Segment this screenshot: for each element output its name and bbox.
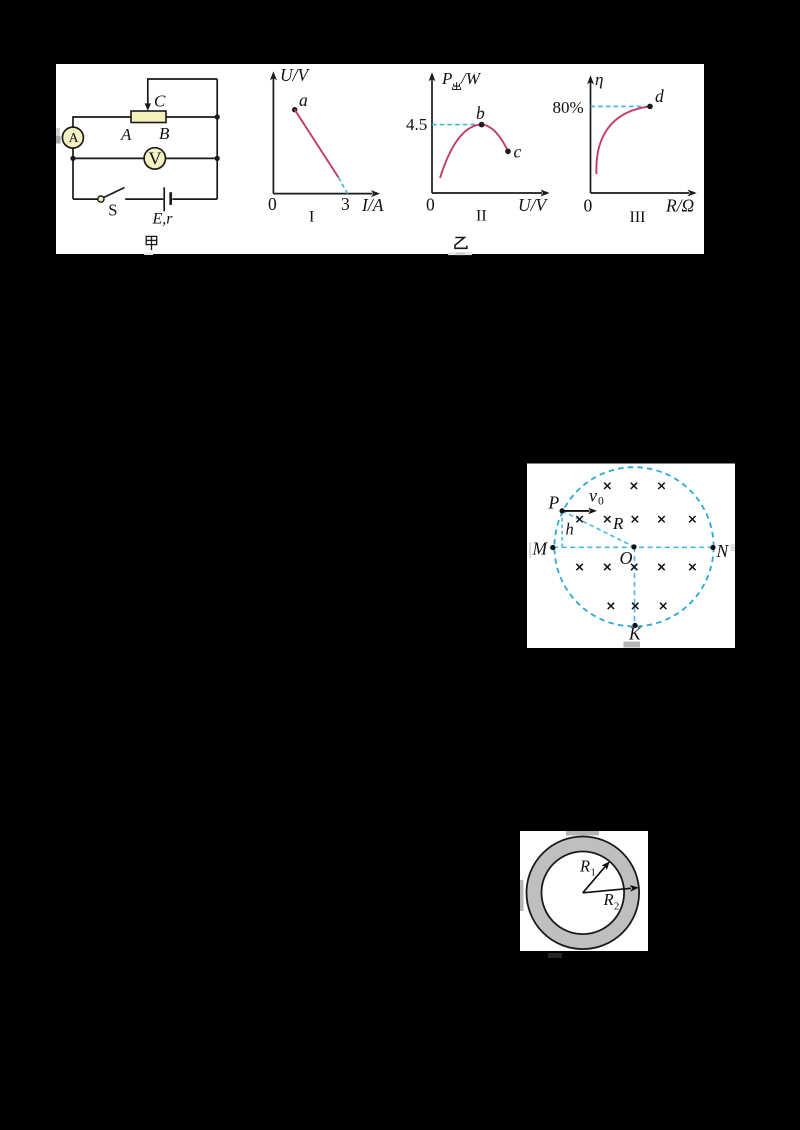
- graph II point b: [479, 122, 485, 128]
- dashed diameter MN: [553, 546, 713, 548]
- svg-text:II: II: [476, 208, 487, 225]
- svg-text:a: a: [299, 90, 308, 110]
- point K: [632, 623, 637, 628]
- gray smudge top edge: [566, 831, 599, 836]
- v0 velocity arrow: [562, 510, 589, 512]
- gray smudge left edge: [520, 880, 524, 911]
- svg-text:2: 2: [614, 902, 619, 913]
- svg-text:P: P: [441, 69, 452, 88]
- wire voltmeter right: [166, 157, 217, 159]
- graph III dashed level: [591, 105, 651, 107]
- svg-text:1: 1: [591, 868, 596, 879]
- svg-text:d: d: [655, 86, 664, 106]
- annulus outer circle: [527, 837, 640, 950]
- graph II x-axis: [432, 192, 542, 194]
- dashed radius OK: [634, 547, 636, 625]
- svg-text:U/V: U/V: [280, 65, 311, 85]
- svg-text:4.5: 4.5: [406, 115, 427, 134]
- figure panel 1 (circuit + graphs): [56, 64, 704, 254]
- annulus inner circle: [542, 852, 625, 935]
- svg-text:III: III: [630, 209, 646, 226]
- svg-text:v: v: [589, 486, 597, 506]
- wire switch-to-battery: [125, 198, 163, 200]
- svg-text:η: η: [595, 70, 603, 89]
- svg-text:0: 0: [268, 194, 277, 214]
- svg-text:0: 0: [426, 195, 435, 215]
- svg-text:A: A: [120, 125, 132, 144]
- svg-text:I: I: [309, 209, 314, 226]
- svg-text:N: N: [716, 541, 730, 561]
- svg-text:M: M: [532, 539, 549, 559]
- svg-text:A: A: [69, 130, 79, 145]
- figure panel 3 (annulus): [520, 831, 648, 951]
- graph II y-axis: [431, 79, 433, 193]
- svg-text:V: V: [149, 149, 162, 169]
- gray tick right of N: [731, 544, 736, 551]
- svg-text:C: C: [154, 92, 166, 111]
- svg-text:0: 0: [598, 496, 604, 508]
- radius arrow R1: [583, 866, 606, 893]
- graph I x-axis: [273, 193, 372, 195]
- svg-text:O: O: [620, 548, 633, 568]
- faint mark below panel 3: [548, 953, 562, 958]
- gray tick left edge: [529, 543, 531, 559]
- node left: [70, 156, 75, 161]
- graph I y-axis: [272, 78, 274, 194]
- slider arrow: [145, 103, 151, 110]
- graph III point d: [647, 104, 653, 110]
- wire rheostat-to-right: [166, 116, 217, 118]
- point N: [710, 545, 715, 550]
- label yi (CJK): [455, 238, 467, 249]
- ammeter A1: [62, 127, 83, 148]
- field cross marks: [576, 483, 695, 610]
- svg-text:I/A: I/A: [361, 195, 384, 215]
- graph I line: [295, 110, 339, 178]
- switch S: [98, 196, 104, 202]
- svg-text:B: B: [159, 124, 170, 143]
- node right: [215, 156, 220, 161]
- wire right vertical: [216, 79, 218, 199]
- resistor (rheostat) AB: [131, 111, 166, 123]
- svg-text:c: c: [514, 142, 522, 162]
- battery E,r: [163, 187, 165, 211]
- figure panel 2 (magnetic field circle): [527, 464, 735, 649]
- svg-text:R/Ω: R/Ω: [665, 196, 695, 216]
- graph III y-axis: [590, 82, 592, 193]
- dashed field boundary circle: [554, 467, 713, 626]
- node at right top: [215, 114, 220, 119]
- label jia (CJK): [146, 236, 157, 250]
- wire voltmeter left: [73, 157, 145, 159]
- wire slider feedback loop: [148, 79, 217, 104]
- radius arrow R2: [583, 888, 631, 893]
- point P: [560, 508, 565, 513]
- voltmeter V1: [144, 148, 165, 169]
- svg-text:3: 3: [341, 194, 350, 214]
- wire ammeter-to-rheostat: [73, 117, 131, 127]
- gray smudge under yi: [448, 252, 472, 255]
- graph I dashed extension: [339, 178, 349, 196]
- svg-text:R: R: [579, 857, 590, 876]
- graph III curve: [596, 106, 650, 174]
- svg-text:S: S: [108, 200, 117, 219]
- graph II point c: [505, 149, 511, 155]
- svg-text:E,r: E,r: [152, 210, 174, 227]
- dashed radius PR: [562, 511, 634, 547]
- faint smudge under jia: [144, 253, 153, 256]
- svg-text:R: R: [612, 514, 624, 533]
- svg-text:K: K: [628, 624, 642, 644]
- gray edge mark left of ammeter: [56, 128, 60, 136]
- graph III x-axis: [591, 192, 690, 194]
- svg-text:/W: /W: [460, 69, 482, 88]
- svg-text:P: P: [548, 493, 560, 513]
- point O: [631, 544, 636, 549]
- svg-text:80%: 80%: [553, 98, 584, 117]
- graph II curve: [440, 125, 508, 178]
- svg-text:h: h: [566, 520, 574, 539]
- svg-text:R: R: [603, 890, 614, 909]
- svg-text:b: b: [476, 103, 485, 123]
- gray smudge under K: [624, 642, 641, 648]
- point M: [550, 545, 555, 550]
- graph II dashed level: [432, 124, 482, 126]
- dashed chord h: [561, 512, 563, 547]
- svg-text:U/V: U/V: [518, 195, 549, 215]
- wire bottom left: [73, 198, 98, 200]
- wire battery-to-right: [172, 198, 217, 200]
- wire ammeter bottom: [72, 148, 74, 199]
- graph I point a: [292, 107, 297, 112]
- svg-text:0: 0: [584, 196, 593, 216]
